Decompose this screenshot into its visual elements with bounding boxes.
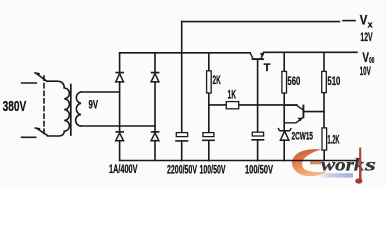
resistor R3 560 [282, 71, 287, 93]
svg-text:100/50V: 100/50V [200, 164, 226, 176]
svg-text:10V: 10V [360, 64, 371, 78]
svg-text:12V: 12V [360, 30, 372, 44]
wire Vx terminal dash [343, 20, 355, 22]
svg-text:T: T [264, 62, 271, 74]
zener diode ZD 2CW15 [278, 128, 291, 140]
wire 560 top lead [283, 52, 285, 71]
diode D1 [115, 72, 124, 74]
wire C2 bottom lead [208, 140, 210, 160]
svg-text:1A/400V: 1A/400V [109, 164, 138, 176]
transistor Q2 [284, 105, 303, 123]
resistor R5 1.2K [322, 128, 327, 150]
transistor Q1 T [250, 53, 264, 60]
svg-text:wor: wor [321, 155, 355, 175]
svg-text:510: 510 [327, 74, 340, 88]
wire C1 bottom lead [181, 141, 183, 161]
switch blade bottom [35, 128, 47, 136]
switch linkage dashed [43, 76, 45, 134]
wire Vx top rail [182, 21, 340, 23]
resistor R2 1K [226, 102, 238, 109]
wire C3 bottom lead [257, 140, 259, 161]
wire base node horizontal [209, 104, 297, 106]
transformer TR1 [22, 73, 81, 137]
resistor R1 2K [207, 71, 212, 93]
wire vertical from Vx rail down to C1 [181, 22, 183, 133]
diode D4 [151, 131, 160, 133]
wire bottom ground rail [120, 160, 356, 162]
wire 510 bottom to base node to 1.2K [323, 93, 325, 128]
wire bridge right rail [154, 53, 156, 161]
wire V00 rail from transistor emitter to terminal [264, 51, 357, 53]
svg-text:2CW15: 2CW15 [292, 131, 314, 143]
bridge rectifier diodes [115, 73, 159, 141]
svg-text:V: V [360, 12, 368, 27]
wire secondary bottom lead [81, 125, 155, 127]
wire zener bottom lead [283, 140, 285, 161]
logo hyphen [310, 161, 321, 164]
svg-text:2K: 2K [213, 73, 221, 87]
wire 2K top lead [208, 53, 210, 71]
svg-text:V: V [362, 50, 369, 65]
wire base of Q2 horizontal [304, 111, 324, 113]
secondary winding [76, 92, 81, 126]
wire rectifier top bus [120, 52, 250, 54]
wire T base lead down to C3 [257, 60, 259, 133]
svg-text:s: s [363, 155, 376, 175]
svg-text:9V: 9V [89, 98, 99, 112]
switch blade top [35, 73, 47, 81]
wire primary top lead [22, 82, 37, 84]
diode D2 [151, 72, 160, 74]
svg-text:380V: 380V [3, 98, 27, 115]
resistor R4 510 [322, 71, 327, 92]
wire 560 bottom lead to zener [283, 93, 285, 131]
capacitor C1 2200/50V [175, 133, 188, 141]
svg-text:560: 560 [287, 74, 300, 88]
diode D3 [115, 131, 124, 133]
svg-text:1.2K: 1.2K [328, 133, 340, 147]
wire secondary top lead [81, 91, 120, 93]
capacitor C2 100/50V [202, 133, 215, 141]
wire 1.2K bottom lead [323, 150, 325, 160]
svg-text:1K: 1K [228, 88, 237, 102]
svg-text:x: x [368, 20, 373, 30]
core [70, 85, 72, 136]
capacitor C3 100/50V [251, 132, 264, 140]
primary winding [47, 81, 70, 136]
svg-text:2200/50V: 2200/50V [167, 164, 197, 176]
svg-text:100/50V: 100/50V [245, 164, 273, 176]
wire bridge left rail [119, 53, 121, 161]
wire 510 top lead [323, 52, 325, 71]
logo blue underline [316, 173, 353, 177]
wire primary bottom lead [22, 136, 36, 138]
svg-text:k: k [354, 155, 364, 175]
e-works logo [292, 148, 376, 184]
logo k red stem [359, 148, 362, 181]
logo orange e [292, 149, 328, 176]
wire 2K bottom lead down to C2 [208, 93, 210, 133]
